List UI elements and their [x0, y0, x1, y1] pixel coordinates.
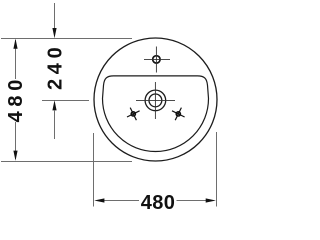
- dimension 480 bottom arrow left: [94, 198, 104, 202]
- bottom right extension line: [216, 132, 218, 207]
- svg-text:480: 480: [5, 75, 27, 122]
- svg-text:240: 240: [45, 43, 67, 90]
- dimension 480 bottom line: [103, 200, 207, 202]
- dimension 480 left arrow down: [13, 151, 17, 161]
- dimension 480 left label: [5, 75, 27, 122]
- inner basin bowl: [103, 76, 209, 152]
- basin outer rim: [94, 38, 217, 161]
- dimension 480 left arrow up: [13, 39, 17, 49]
- dimension 480 bottom arrow right: [206, 198, 216, 202]
- top extension line: [1, 38, 132, 40]
- tap hole mark right: [172, 108, 185, 121]
- dimension 240 arrow up: [52, 100, 56, 110]
- dimension 480 bottom label: [141, 192, 176, 214]
- bottom extension line: [1, 161, 132, 163]
- drain centre extension line: [42, 100, 89, 102]
- dimension 240 label: [45, 43, 67, 90]
- dimension 240 line upper tail: [54, 3, 56, 30]
- svg-text:480: 480: [141, 192, 176, 214]
- dimension 240 arrow down: [52, 28, 56, 38]
- dimension 240 line lower tail: [54, 110, 56, 139]
- bottom left extension line: [93, 133, 95, 207]
- drain: [136, 82, 175, 119]
- faucet hole: [144, 47, 170, 73]
- dimension 480 left line: [15, 40, 17, 159]
- tap hole mark left: [127, 108, 140, 121]
